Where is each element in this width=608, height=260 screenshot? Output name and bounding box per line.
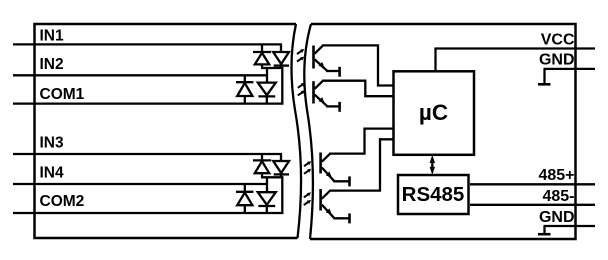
isolation light arrows opto1 — [297, 49, 304, 62]
diode D7 (IN4 group, up-pointing) — [236, 184, 253, 213]
wire U1 collector to uC — [322, 45, 394, 85]
svg-text:GND: GND — [539, 209, 575, 226]
wire: pair A bottom rail — [261, 67, 284, 69]
wire IN2 — [13, 74, 268, 76]
ground symbol (top) — [538, 69, 551, 84]
wire 485- — [470, 204, 595, 206]
wire U2 collector to uC — [322, 81, 394, 97]
wire: jog rail to IN2/D4 — [266, 68, 268, 82]
diode D3 (IN2 group, up-pointing) — [236, 75, 253, 103]
optocoupler U3 phototransistor — [321, 153, 350, 187]
diode D1 (IN1 group, up-pointing, cathode bar top) — [253, 44, 271, 68]
right box (logic-side enclosure) — [310, 24, 576, 239]
svg-text:IN3: IN3 — [40, 135, 65, 152]
svg-text:COM1: COM1 — [40, 86, 85, 103]
svg-text:IN2: IN2 — [40, 56, 64, 73]
optocoupler U2 phototransistor — [314, 81, 340, 112]
wire: rail down to COM2 — [281, 177, 283, 213]
diode D4 (IN2 group, down-pointing) — [258, 83, 276, 104]
wire IN1 — [13, 43, 282, 45]
svg-text:GND: GND — [539, 52, 575, 69]
RS485 transceiver U6 box — [398, 175, 469, 214]
isolation light arrows opto2 — [298, 83, 305, 96]
diode D2 (IN1 group, down-pointing) — [273, 44, 289, 68]
optocoupler U4 phototransistor — [321, 189, 350, 223]
svg-text:COM2: COM2 — [40, 193, 85, 210]
wire 485+ — [470, 183, 595, 185]
svg-text:IN1: IN1 — [40, 28, 65, 45]
svg-text:RS485: RS485 — [402, 183, 465, 206]
right box curved left edge — [304, 24, 313, 239]
ground symbol (bottom) — [538, 226, 551, 234]
wire IN4 — [13, 183, 268, 185]
wire COM1 — [13, 102, 284, 104]
wire: jog rail to IN4/D8 — [266, 177, 268, 192]
wire U3 collector to uC — [329, 129, 393, 154]
diode D8 (IN4 group, down-pointing) — [258, 192, 276, 213]
svg-text:485-: 485- — [542, 188, 574, 205]
svg-text:IN4: IN4 — [40, 165, 65, 182]
svg-text:485+: 485+ — [538, 167, 574, 184]
wire GND (bottom) — [544, 225, 596, 227]
wire: pair C bottom rail — [261, 176, 284, 178]
diode D5 (IN3 group, up-pointing) — [253, 154, 271, 177]
bus arrow uC to RS485 — [430, 155, 435, 175]
wire GND (top) — [544, 68, 596, 70]
microcontroller U5 box — [394, 71, 475, 155]
wire COM2 — [13, 212, 284, 214]
wire VCC — [434, 47, 595, 49]
wire IN3 — [13, 153, 282, 155]
isolation light arrows opto4 — [304, 192, 311, 205]
diode D6 (IN3 group, down-pointing) — [273, 154, 289, 177]
wire U4 collector to uC — [329, 139, 393, 190]
isolation light arrows opto3 — [304, 161, 311, 174]
svg-text:VCC: VCC — [541, 32, 575, 49]
wire: rail down to COM1 — [281, 68, 283, 104]
optocoupler U1 phototransistor — [314, 45, 340, 76]
left box (field-side enclosure) — [35, 24, 298, 238]
svg-text:µC: µC — [419, 100, 448, 125]
left box curved right edge — [291, 24, 301, 238]
wire uC to VCC rail — [434, 49, 436, 72]
